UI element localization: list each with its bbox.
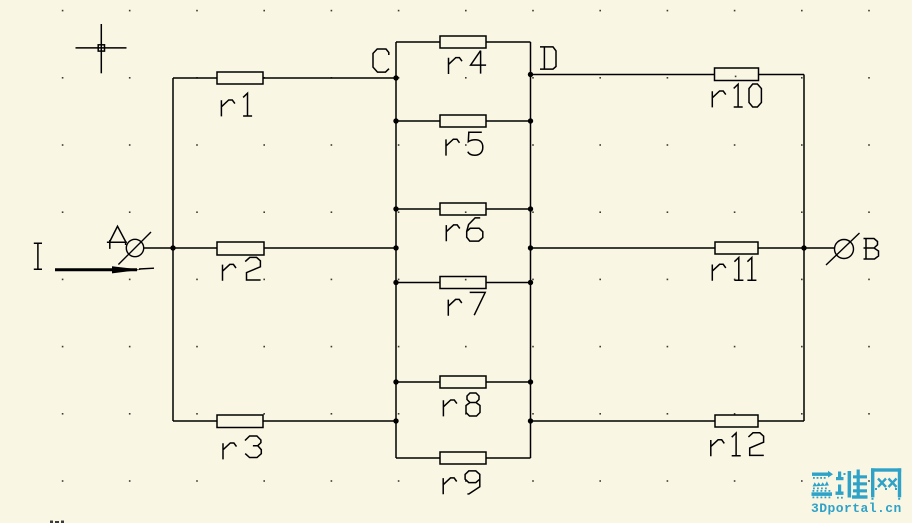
resistor r10	[715, 68, 759, 81]
wire r4 row	[396, 41, 531, 43]
terminal node A circle	[118, 232, 151, 265]
label r7	[448, 292, 485, 315]
screen edge artifact bottom-left	[50, 521, 64, 523]
label I	[34, 243, 42, 269]
junction D r6	[528, 206, 533, 211]
wire r10 row	[531, 74, 805, 76]
junction D r8	[528, 379, 533, 384]
wire r5 row	[396, 120, 531, 122]
label r10	[712, 84, 761, 107]
resistor r8	[440, 376, 486, 388]
label r6	[446, 218, 483, 241]
wire node A stub	[144, 247, 174, 249]
crosshair cursor	[76, 24, 127, 73]
junction C r6	[393, 206, 398, 211]
junction D r11	[528, 245, 533, 250]
junction D r7	[528, 280, 533, 285]
label r8	[443, 393, 480, 416]
terminal node B circle	[826, 233, 860, 265]
label C	[373, 49, 389, 72]
wire r6 row	[396, 208, 531, 210]
wire r11 row	[531, 247, 805, 249]
wire r7 row	[396, 282, 531, 284]
label r11	[712, 258, 756, 281]
resistor r5	[440, 115, 486, 127]
resistor r1	[217, 72, 263, 84]
resistor r2	[217, 242, 264, 255]
label B	[864, 239, 879, 260]
wire left bus node C	[395, 42, 397, 458]
resistor r6	[440, 203, 486, 215]
label r5	[446, 132, 483, 155]
label r12	[711, 433, 764, 456]
junction D r10	[528, 72, 533, 77]
junction C r1	[393, 75, 398, 80]
wire right bus node D	[530, 42, 532, 458]
wire right trunk vertical	[803, 75, 805, 422]
junction C r2	[393, 245, 398, 250]
junction A-trunk	[170, 245, 175, 250]
wire r9 row	[396, 457, 531, 459]
junction D r12	[528, 418, 533, 423]
label r1	[221, 93, 252, 116]
label A	[107, 226, 127, 249]
wire r2 row	[173, 247, 396, 249]
wire node B stub	[804, 247, 835, 249]
label r4	[449, 51, 487, 74]
junction C r8	[393, 379, 398, 384]
wire r1 row	[173, 77, 396, 79]
resistor r7	[440, 277, 486, 289]
wire r12 row	[531, 420, 805, 422]
svg-text:3Dportal.cn: 3Dportal.cn	[811, 501, 902, 516]
junction B-trunk	[801, 245, 806, 250]
resistor r4	[440, 36, 486, 48]
current arrow I	[55, 266, 154, 273]
resistor r12	[715, 415, 758, 427]
resistor r11	[715, 242, 758, 254]
label r2	[223, 257, 261, 280]
label r9	[443, 471, 480, 494]
junction C r3	[393, 418, 398, 423]
label r3	[223, 436, 261, 459]
label D	[540, 47, 556, 69]
junction C r7	[393, 280, 398, 285]
wire left trunk vertical	[172, 78, 174, 421]
resistor r3	[217, 415, 263, 428]
wire r8 row	[396, 381, 531, 383]
logo watermark 3Dportal.cn	[811, 468, 902, 516]
junction C r5	[393, 118, 398, 123]
junction D r5	[528, 118, 533, 123]
wire r3 row	[173, 420, 396, 422]
resistor r9	[440, 452, 486, 464]
